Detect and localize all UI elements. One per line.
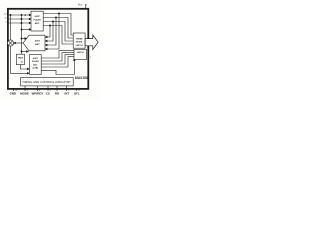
node VREF- junction <box>21 22 23 24</box>
pin GND label <box>10 92 16 96</box>
pin INT label <box>64 92 69 96</box>
svg-text:FLASH: FLASH <box>34 19 41 22</box>
svg-text:6: 6 <box>39 90 40 92</box>
wire MSB bit1 <box>43 14 73 36</box>
arrow tap2 into DAC <box>45 44 47 46</box>
wire DAC tap1 <box>47 14 59 50</box>
wire VREF/16 output <box>20 65 27 69</box>
arrow into MSB ADC (VREF-) <box>29 22 31 24</box>
dac D1: 4-bit DAC trapezoid <box>23 35 45 51</box>
arrow VREF/16 into LSB ADC <box>27 68 29 70</box>
wire LSB strobe line <box>41 60 74 74</box>
svg-text:WR/RDY: WR/RDY <box>32 92 44 96</box>
svg-text:4-BIT: 4-BIT <box>35 40 41 43</box>
pin WR/RDY stub <box>37 86 39 91</box>
svg-text:5: 5 <box>50 90 51 92</box>
arrow tap3 into DAC <box>45 40 47 42</box>
svg-text:FLASH: FLASH <box>32 60 39 63</box>
arrow into MSB ADC (VREF+) <box>29 18 31 20</box>
wire LSB bit4 <box>41 57 74 67</box>
pin VREF- label <box>5 22 7 24</box>
wire branch to DAC lower corner <box>22 51 27 53</box>
arrow into MSB ADC (VIN) <box>29 14 31 16</box>
svg-text:TIMING AND CONTROL CIRCUITRY: TIMING AND CONTROL CIRCUITRY <box>22 80 71 84</box>
pin number 9 <box>68 90 69 92</box>
wire MSB bit4 <box>43 26 73 45</box>
wire residue from subtractor <box>11 46 28 73</box>
part number MAX150 <box>75 76 88 80</box>
wire VREF+ <box>8 18 29 20</box>
node DAC tap1 <box>58 13 60 15</box>
node DAC tap3 <box>52 21 54 23</box>
svg-text:VREF: VREF <box>18 58 24 60</box>
arrow into DAC ref input <box>25 38 27 40</box>
pin label right <box>90 57 92 59</box>
wire branch to DAC ref input <box>22 38 25 40</box>
svg-text:10: 10 <box>15 90 17 92</box>
arrow residue into LSB ADC <box>27 73 29 75</box>
pin number 17 <box>78 90 80 92</box>
svg-text:LATCH: LATCH <box>77 51 84 54</box>
wire DAC tap2 <box>47 18 56 46</box>
wire VREF vertical branch <box>21 15 23 54</box>
node DAC tap2 <box>55 17 57 19</box>
pin RD stub <box>56 86 58 91</box>
svg-text:9: 9 <box>68 90 69 92</box>
node branch to DAC lower corner <box>21 51 23 53</box>
bus arrow DB0-DB7 <box>85 35 98 49</box>
pin MODE stub <box>24 86 26 91</box>
op block: output latch (LSB) <box>74 49 87 59</box>
pin OFL label <box>74 92 80 96</box>
pin CS label <box>46 92 50 96</box>
svg-text:17: 17 <box>78 90 80 92</box>
svg-text:4-BIT: 4-BIT <box>34 15 40 18</box>
pin number 5 <box>50 90 51 92</box>
svg-text:ADC: ADC <box>33 63 38 66</box>
svg-text:4-BIT: 4-BIT <box>33 57 39 60</box>
pin MODE label <box>20 92 29 96</box>
node VREF+ junction <box>21 18 23 20</box>
pin OFL stub <box>75 89 77 91</box>
wire branch to MSB ADC lower input <box>22 29 30 31</box>
wire LSB bit3 <box>41 55 74 64</box>
svg-text:MAX150: MAX150 <box>75 76 88 80</box>
wire DAC tap4 <box>47 26 50 38</box>
pin number 10 <box>15 90 17 92</box>
arrow into DAC lower corner <box>27 51 29 53</box>
IC boundary border <box>8 9 88 89</box>
pin GND stub <box>13 89 15 91</box>
pin VDD stub <box>85 5 87 9</box>
wire DAC output to subtractor <box>15 42 23 44</box>
op block: 4-bit flash ADC (MSB) <box>31 11 43 31</box>
svg-text:STATE: STATE <box>76 41 83 44</box>
pin VDD label <box>78 2 83 6</box>
wire VIN drop to subtractor <box>10 15 12 40</box>
svg-text:INT: INT <box>64 92 69 96</box>
subtractor node (circle with X) <box>7 40 13 46</box>
wire VIN <box>8 14 29 16</box>
node branch to MSB <box>21 29 23 31</box>
arrow tap1 into DAC <box>45 48 47 50</box>
arrow into MSB ADC lower input <box>29 29 31 31</box>
op block: three-state latch (MSB) <box>73 33 85 48</box>
wire VREF- <box>8 22 29 24</box>
svg-text:GND: GND <box>10 92 16 96</box>
pin WR/RDY label <box>32 92 44 96</box>
node branch to DAC <box>21 38 23 40</box>
node DAC tap4 <box>49 25 51 27</box>
svg-text:THREE: THREE <box>76 38 83 40</box>
svg-text:8: 8 <box>27 90 28 92</box>
arrow tap4 into DAC <box>45 36 47 38</box>
pin INT stub <box>66 86 68 91</box>
wire MSB bit3 <box>43 22 73 42</box>
svg-text:DAC: DAC <box>35 43 40 46</box>
svg-text:ADC: ADC <box>35 22 40 25</box>
pin VREF+ label <box>4 18 7 20</box>
divider block VREF/16 <box>16 54 24 64</box>
node VIN junction <box>10 14 12 16</box>
node on VIN wire <box>21 14 23 16</box>
svg-text:LATCH: LATCH <box>76 44 83 47</box>
svg-text:CS: CS <box>46 92 50 96</box>
svg-text:RD: RD <box>55 92 59 96</box>
pin number 8 <box>27 90 28 92</box>
wire LSB bit1 <box>41 51 74 58</box>
arrow up into latch block <box>74 59 76 61</box>
pin RD label <box>55 92 59 96</box>
pin VIN label <box>4 14 7 16</box>
svg-text:OFL: OFL <box>74 92 80 96</box>
wire MSB bit2 <box>43 18 73 39</box>
svg-text:(LSB): (LSB) <box>33 68 39 70</box>
svg-text:MODE: MODE <box>20 92 29 96</box>
arrow into subtractor <box>14 42 16 44</box>
pin CS stub <box>47 86 49 91</box>
wire DAC tap3 <box>47 22 53 42</box>
op block: 4-bit flash ADC (LSB) <box>30 55 42 75</box>
timing and control block <box>21 78 74 86</box>
wire LSB bit2 <box>41 53 74 61</box>
pin number 6 <box>39 90 40 92</box>
